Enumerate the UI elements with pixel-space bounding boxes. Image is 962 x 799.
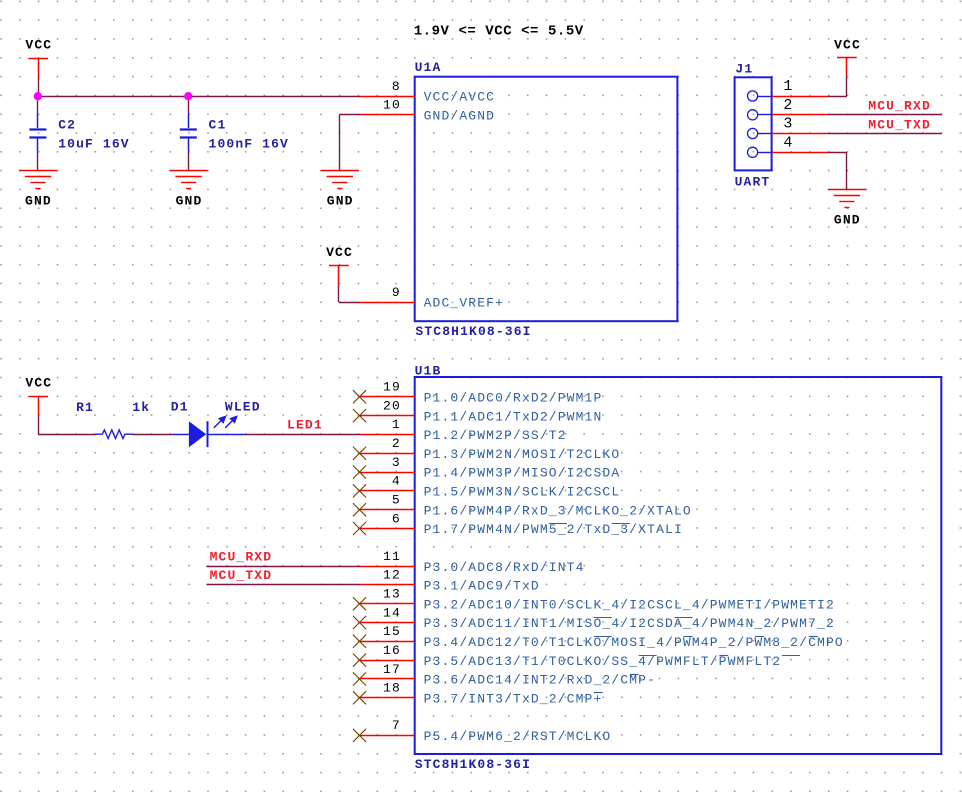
- svg-text:P1.2/PWM2P/SS/T2: P1.2/PWM2P/SS/T2: [424, 428, 567, 443]
- svg-text:17: 17: [383, 662, 401, 677]
- svg-text:P3.6/ADC14/INT2/RxD_2/CMP-: P3.6/ADC14/INT2/RxD_2/CMP-: [424, 673, 656, 688]
- power symbol VCC (ADC_VREF+): [326, 245, 353, 284]
- pin number 10: [383, 98, 401, 113]
- svg-text:6: 6: [392, 511, 401, 526]
- no-connect X pin 14: [353, 616, 366, 629]
- connector J1 pin 4 circle: [748, 147, 758, 157]
- pin number 4: [392, 474, 401, 489]
- pin 7 P5.4 stub: [360, 735, 415, 737]
- svg-text:P1.6/PWM4P/RxD_3/MCLKO_2/XTALO: P1.6/PWM4P/RxD_3/MCLKO_2/XTALO: [424, 503, 692, 518]
- pin number 1: [392, 417, 401, 432]
- no-connect X pin 3: [353, 465, 366, 478]
- pin name P1.5/PWM3N/SCLK/I2CSCL: [424, 485, 621, 500]
- svg-text:STC8H1K08-36I: STC8H1K08-36I: [415, 324, 531, 339]
- ground symbol GND (under C2): [19, 171, 57, 209]
- pin 4 stub: [758, 152, 828, 154]
- power symbol VCC (J1 pin 1): [834, 37, 861, 76]
- op U1A reference label: [415, 60, 442, 75]
- connector J1 pin 3 circle: [748, 128, 758, 138]
- svg-text:P3.2/ADC10/INT0/SCLK_4/I2CSCL_: P3.2/ADC10/INT0/SCLK_4/I2CSCL_4/PWMETI/P…: [424, 597, 835, 612]
- pin number 9: [392, 285, 401, 300]
- svg-text:P3.0/ADC8/RxD/INT4: P3.0/ADC8/RxD/INT4: [424, 560, 585, 575]
- pin number 6: [392, 511, 401, 526]
- wire C1 top lead: [188, 96, 190, 114]
- pin name P3.5/ADC13/T1/T0CLKO/SS_4/PWMFLT/PWMFLT2: [424, 654, 782, 669]
- connector J1 body: [735, 77, 772, 170]
- pin 14 P3.3 stub: [360, 622, 415, 624]
- label D1 value WLED: [225, 399, 261, 414]
- svg-text:1k: 1k: [132, 400, 150, 415]
- svg-text:GND: GND: [327, 194, 354, 209]
- label R1 value 1k: [132, 400, 150, 415]
- svg-text:MCU_TXD: MCU_TXD: [210, 568, 273, 583]
- svg-text:R1: R1: [76, 400, 94, 415]
- ground symbol GND (under C1): [170, 171, 208, 209]
- svg-text:UART: UART: [735, 175, 771, 190]
- power symbol VCC (top-left rail): [25, 38, 52, 77]
- pin number 2: [783, 97, 793, 114]
- wire net MCU_RXD (J1 pin 2): [827, 114, 942, 116]
- wire net MCU_TXD (U1B pin 12): [207, 584, 360, 586]
- svg-text:4: 4: [783, 134, 793, 151]
- net label LED1: [287, 418, 323, 433]
- pin number 7: [392, 718, 401, 733]
- wire VCC to pin 9: [339, 285, 360, 303]
- svg-text:ADC_VREF+: ADC_VREF+: [424, 296, 504, 311]
- pin name P1.3/PWM2N/MOSI/T2CLKO: [424, 447, 621, 462]
- pin 12 P3.1 stub: [360, 584, 415, 586]
- svg-text:1: 1: [392, 417, 401, 432]
- svg-text:13: 13: [383, 587, 401, 602]
- svg-text:20: 20: [383, 398, 401, 413]
- no-connect X pin 5: [353, 503, 366, 516]
- svg-text:C2: C2: [58, 118, 76, 133]
- capacitor C2: [29, 114, 46, 152]
- pin number 12: [383, 568, 401, 583]
- no-connect X pin 4: [353, 484, 366, 497]
- pin name P5.4/PWM6_2/RST/MCLKO: [424, 729, 612, 744]
- net label MCU_RXD (U1B): [210, 549, 273, 564]
- pin name P1.6/PWM4P/RxD_3/MCLKO_2/XTALO: [424, 503, 692, 518]
- svg-text:GND: GND: [834, 213, 861, 228]
- pin name P3.4/ADC12/T0/T1CLKO/MOSI_4/PWM4P_2/PWM8_2/CMPO: [424, 635, 844, 650]
- pin 17 P3.6 stub: [360, 678, 415, 680]
- label U1A part number STC8H1K08-36I: [415, 324, 531, 339]
- pin 10 GND/AGND stub: [360, 114, 415, 116]
- no-connect X pin 20: [353, 409, 366, 422]
- svg-text:C1: C1: [209, 118, 227, 133]
- pin 6 P1.7 stub: [360, 528, 415, 530]
- ic U1A body STC8H1K08-36I power unit: [415, 77, 678, 322]
- junction at C1: [184, 92, 192, 100]
- no-connect X pin 6: [353, 522, 366, 535]
- label C1 reference: [209, 118, 227, 133]
- label U1B part number STC8H1K08-36I: [415, 757, 531, 772]
- wire net MCU_TXD (J1 pin 3): [827, 133, 942, 135]
- wire C2 top lead: [37, 96, 39, 114]
- label D1 reference: [171, 399, 189, 414]
- svg-text:12: 12: [383, 568, 401, 583]
- svg-text:10uF 16V: 10uF 16V: [58, 137, 130, 152]
- svg-text:MCU_RXD: MCU_RXD: [210, 549, 273, 564]
- svg-text:2: 2: [392, 436, 401, 451]
- pin number 4: [783, 134, 793, 151]
- svg-text:GND: GND: [25, 194, 52, 209]
- svg-text:1.9V <= VCC <= 5.5V: 1.9V <= VCC <= 5.5V: [414, 24, 584, 40]
- pin name P3.1/ADC9/TxD: [424, 579, 540, 594]
- wire J1 pin1 to VCC: [827, 77, 847, 97]
- pin name P1.4/PWM3P/MISO/I2CSDA: [424, 466, 621, 481]
- pin number 2: [392, 436, 401, 451]
- pin number 16: [383, 643, 401, 658]
- svg-text:STC8H1K08-36I: STC8H1K08-36I: [415, 757, 531, 772]
- svg-text:VCC: VCC: [326, 245, 353, 260]
- pin name P3.7/INT3/TxD_2/CMP+: [424, 692, 603, 707]
- pin 18 P3.7 stub: [360, 697, 415, 699]
- junction at C2: [34, 92, 42, 100]
- svg-text:1: 1: [783, 78, 793, 95]
- pin name ADC_VREF+: [424, 296, 504, 311]
- no-connect X pin 19: [353, 390, 366, 403]
- wire pin10 to GND: [340, 115, 360, 171]
- pin 2 P1.3 stub: [360, 453, 415, 455]
- wire VCC to resistor: [38, 415, 96, 435]
- connector J1 reference label: [735, 62, 753, 77]
- svg-text:100nF 16V: 100nF 16V: [209, 137, 289, 152]
- no-connect X pin 17: [353, 672, 366, 685]
- svg-text:11: 11: [383, 549, 401, 564]
- ic U1B body STC8H1K08-36I gpio unit: [415, 377, 942, 754]
- power symbol VCC (LED branch): [25, 376, 52, 415]
- svg-text:P1.3/PWM2N/MOSI/T2CLKO: P1.3/PWM2N/MOSI/T2CLKO: [424, 447, 621, 462]
- no-connect X pin 16: [353, 654, 366, 667]
- pin 3 stub: [758, 133, 828, 135]
- svg-text:GND/AGND: GND/AGND: [424, 109, 496, 124]
- svg-text:8: 8: [392, 79, 401, 94]
- svg-text:GND: GND: [176, 194, 203, 209]
- pin 4 P1.5 stub: [360, 490, 415, 492]
- pin name GND/AGND: [424, 109, 496, 124]
- svg-text:P3.4/ADC12/T0/T1CLKO/MOSI_4/PW: P3.4/ADC12/T0/T1CLKO/MOSI_4/PWM4P_2/PWM8…: [424, 635, 844, 650]
- svg-text:P1.0/ADC0/RxD2/PWM1P: P1.0/ADC0/RxD2/PWM1P: [424, 391, 603, 406]
- wire main VCC rail: [38, 96, 359, 98]
- no-connect X pin 2: [353, 447, 366, 460]
- pin name P3.0/ADC8/RxD/INT4: [424, 560, 585, 575]
- no-connect X pin 15: [353, 635, 366, 648]
- wire VCC stem to rail: [38, 77, 40, 96]
- svg-text:D1: D1: [171, 399, 189, 414]
- svg-text:VCC: VCC: [25, 38, 52, 53]
- svg-text:VCC/AVCC: VCC/AVCC: [424, 90, 496, 105]
- svg-text:7: 7: [392, 718, 401, 733]
- svg-text:10: 10: [383, 98, 401, 113]
- pin name P1.7/PWM4N/PWM5_2/TxD_3/XTALI: [424, 522, 683, 537]
- net label MCU_TXD (U1B): [210, 568, 273, 583]
- svg-text:16: 16: [383, 643, 401, 658]
- resistor R1: [96, 430, 132, 439]
- wire J1 pin4 to GND: [827, 152, 847, 189]
- no-connect X pin 18: [353, 691, 366, 704]
- pin number 5: [392, 493, 401, 508]
- svg-text:U1A: U1A: [415, 60, 442, 75]
- pin 5 P1.6 stub: [360, 509, 415, 511]
- svg-text:MCU_TXD: MCU_TXD: [868, 117, 931, 132]
- pin number 19: [383, 380, 401, 395]
- pin number 13: [383, 587, 401, 602]
- pin 13 P3.2 stub: [360, 603, 415, 605]
- pin name P3.6/ADC14/INT2/RxD_2/CMP-: [424, 673, 656, 688]
- pin number 11: [383, 549, 401, 564]
- svg-text:P1.7/PWM4N/PWM5_2/TxD_3/XTALI: P1.7/PWM4N/PWM5_2/TxD_3/XTALI: [424, 522, 683, 537]
- pin name P3.2/ADC10/INT0/SCLK_4/I2CSCL_4/PWMETI/PWMETI2: [424, 597, 835, 612]
- label UART: [735, 175, 771, 190]
- net label MCU_RXD (J1): [868, 99, 931, 114]
- label C2 value 10uF 16V: [58, 137, 130, 152]
- pin 19 P1.0 stub: [360, 396, 415, 398]
- svg-text:J1: J1: [735, 62, 753, 77]
- svg-text:3: 3: [392, 455, 401, 470]
- net label MCU_TXD (J1): [868, 117, 931, 132]
- svg-text:P1.1/ADC1/TxD2/PWM1N: P1.1/ADC1/TxD2/PWM1N: [424, 409, 603, 424]
- text note voltage range: [414, 24, 584, 40]
- svg-text:4: 4: [392, 474, 401, 489]
- pin 1 stub: [758, 96, 828, 98]
- svg-text:P3.7/INT3/TxD_2/CMP+: P3.7/INT3/TxD_2/CMP+: [424, 692, 603, 707]
- svg-text:LED1: LED1: [287, 418, 323, 433]
- pin number 17: [383, 662, 401, 677]
- svg-text:VCC: VCC: [25, 376, 52, 391]
- pin 9 ADC_VREF+ stub: [360, 302, 415, 304]
- connector J1 pin 1 circle: [748, 91, 758, 101]
- wire C2 bottom lead: [37, 151, 39, 170]
- ground symbol GND (U1A pin 10): [321, 171, 359, 209]
- connector J1 pin 2 circle: [748, 110, 758, 120]
- pin number 18: [383, 681, 401, 696]
- overbar marks on pin names: [549, 524, 818, 693]
- led D1: [172, 415, 245, 447]
- wire C1 bottom lead: [188, 151, 190, 170]
- wire net MCU_RXD (U1B pin 11): [207, 566, 360, 568]
- pin name P1.0/ADC0/RxD2/PWM1P: [424, 391, 603, 406]
- svg-text:5: 5: [392, 493, 401, 508]
- capacitor C1: [180, 114, 197, 152]
- pin 20 P1.1 stub: [360, 415, 415, 417]
- wire R1 to D1: [132, 434, 172, 436]
- svg-text:P1.4/PWM3P/MISO/I2CSDA: P1.4/PWM3P/MISO/I2CSDA: [424, 466, 621, 481]
- pin number 3: [783, 116, 793, 133]
- pin name P3.3/ADC11/INT1/MISO_4/I2CSDA_4/PWM4N_2/PWM7_2: [424, 616, 835, 631]
- pin name VCC/AVCC: [424, 90, 496, 105]
- pin number 1: [783, 78, 793, 95]
- svg-text:VCC: VCC: [834, 37, 861, 52]
- svg-text:P3.3/ADC11/INT1/MISO_4/I2CSDA_: P3.3/ADC11/INT1/MISO_4/I2CSDA_4/PWM4N_2/…: [424, 616, 835, 631]
- pin 15 P3.4 stub: [360, 641, 415, 643]
- svg-text:2: 2: [783, 97, 793, 114]
- pin number 20: [383, 398, 401, 413]
- svg-text:14: 14: [383, 605, 401, 620]
- pin name P1.2/PWM2P/SS/T2: [424, 428, 567, 443]
- svg-text:P1.5/PWM3N/SCLK/I2CSCL: P1.5/PWM3N/SCLK/I2CSCL: [424, 485, 621, 500]
- ic U1B reference label: [415, 363, 442, 378]
- pin 2 stub: [758, 114, 828, 116]
- pin number 15: [383, 624, 401, 639]
- ground symbol GND (J1 pin 4): [828, 190, 866, 228]
- pin name P1.1/ADC1/TxD2/PWM1N: [424, 409, 603, 424]
- label C2 reference: [58, 118, 76, 133]
- pin 11 P3.0 stub: [360, 566, 415, 568]
- svg-text:18: 18: [383, 681, 401, 696]
- pin number 14: [383, 605, 401, 620]
- pin 3 P1.4 stub: [360, 472, 415, 474]
- label C1 value 100nF 16V: [209, 137, 289, 152]
- pin 16 P3.5 stub: [360, 660, 415, 662]
- label R1 reference: [76, 400, 94, 415]
- svg-text:P3.1/ADC9/TxD: P3.1/ADC9/TxD: [424, 579, 540, 594]
- pin 8 VCC/AVCC stub: [360, 96, 415, 98]
- svg-text:15: 15: [383, 624, 401, 639]
- pin 1 P1.2 stub: [360, 434, 415, 436]
- no-connect X pin 7: [353, 729, 366, 742]
- wire net LED1: [245, 434, 360, 436]
- svg-text:9: 9: [392, 285, 401, 300]
- svg-text:19: 19: [383, 380, 401, 395]
- no-connect X pin 13: [353, 597, 366, 610]
- svg-text:P5.4/PWM6_2/RST/MCLKO: P5.4/PWM6_2/RST/MCLKO: [424, 729, 612, 744]
- svg-text:MCU_RXD: MCU_RXD: [868, 99, 931, 114]
- pin number 8: [392, 79, 401, 94]
- pin number 3: [392, 455, 401, 470]
- svg-text:WLED: WLED: [225, 399, 261, 414]
- svg-text:3: 3: [783, 116, 793, 133]
